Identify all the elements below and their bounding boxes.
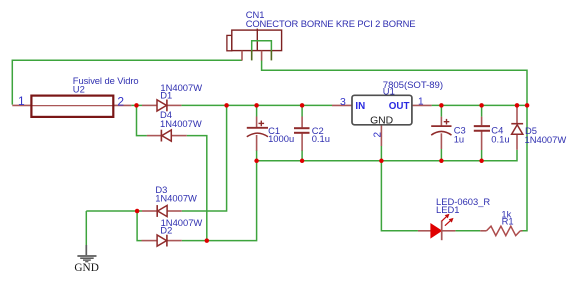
pin number 1 (U1 OUT): [418, 97, 424, 108]
diode D4: [147, 130, 187, 142]
wire: D3 anode up to IN rail: [182, 105, 227, 211]
node: fuse/D1/D4 junction: [134, 103, 139, 108]
svg-text:GND: GND: [370, 116, 393, 127]
label R1: [501, 208, 513, 226]
svg-text:1: 1: [418, 97, 424, 108]
label C3: [454, 124, 466, 144]
svg-text:CONECTOR BORNE KRE PCI 2 BORNE: CONECTOR BORNE KRE PCI 2 BORNE: [246, 18, 416, 29]
node: D2 cathode / D4 junction: [205, 238, 210, 243]
label D5: [525, 125, 567, 145]
node: C4 bottom: [479, 159, 484, 164]
svg-text:R1: R1: [502, 216, 514, 227]
pin number 2 (fuse): [117, 94, 124, 108]
svg-text:2: 2: [372, 132, 383, 138]
fuse U2: [12, 96, 131, 117]
label D2: [160, 217, 202, 235]
svg-text:IN: IN: [355, 101, 365, 112]
label C1: [268, 125, 294, 144]
node: C1 top: [254, 103, 259, 108]
svg-text:U2: U2: [73, 84, 85, 95]
node: C2 top: [300, 103, 305, 108]
wire: OUT rail from U1 OUT to right vertical: [432, 104, 527, 106]
svg-text:3: 3: [340, 96, 346, 108]
svg-text:1: 1: [18, 94, 25, 108]
svg-text:GND: GND: [74, 262, 98, 274]
label U1: [383, 80, 443, 97]
diode D1: [142, 100, 181, 112]
svg-text:U1: U1: [383, 86, 395, 97]
pin number 3 (U1 IN): [340, 96, 346, 108]
svg-text:1N4007W: 1N4007W: [525, 134, 567, 145]
svg-text:2: 2: [117, 94, 124, 108]
wire: C1 stubs: [256, 105, 258, 160]
node: C4 top: [479, 103, 484, 108]
svg-text:1N4007W: 1N4007W: [160, 118, 202, 129]
svg-text:1u: 1u: [454, 133, 464, 144]
wire: C3 stubs: [440, 105, 442, 160]
node: right vertical on OUT rail: [525, 103, 530, 108]
capacitor C1: [247, 117, 268, 151]
wire: D3 cathode row from GND corner: [86, 210, 142, 212]
wire: CN1 pin2 to +5V rail and down right side to R1: [262, 60, 527, 230]
svg-text:LED1: LED1: [436, 204, 459, 215]
node: C3 bottom: [439, 159, 444, 164]
diode D3: [142, 205, 182, 217]
svg-text:0.1u: 0.1u: [312, 133, 330, 144]
node: D3/D2 anode junction: [135, 209, 140, 214]
resistor R1: [480, 226, 522, 235]
wire: top-left input wire from CN1 pin1 to fuse: [12, 60, 242, 104]
node: D5 top: [515, 103, 520, 108]
label D1: [160, 82, 202, 100]
pin number 1 (fuse): [18, 94, 25, 108]
label LED1: [436, 196, 490, 215]
wire: D4 anode right and down to D2 row: [187, 136, 207, 241]
svg-text:1000u: 1000u: [268, 133, 294, 144]
pin number 2 (U1 GND): [372, 132, 383, 138]
connector CN1: [227, 29, 282, 61]
wire: IN rail from fuse junction to U1 IN: [131, 104, 332, 106]
wire: fuse junction down to D4: [137, 105, 147, 135]
wire: D5 bottom stub: [516, 150, 518, 162]
regulator U1: [332, 95, 432, 146]
wire: GND rail: [257, 160, 517, 162]
wire: C2 stubs: [301, 105, 303, 160]
wire: LED cathode to R1: [455, 230, 480, 232]
wire: D2 cathode right and up to GND rail: [182, 161, 257, 241]
label U2 Fusivel de Vidro: [73, 75, 139, 95]
wire: U1 GND pin to GND rail and LED branch: [381, 146, 418, 231]
LED LED1: [418, 214, 456, 241]
capacitor C4: [474, 117, 490, 150]
capacitor C3: [431, 117, 451, 149]
wire: D3 junction down to D2 anode: [137, 211, 141, 241]
node: C3 top: [439, 103, 444, 108]
label D4: [160, 109, 202, 129]
svg-text:D1: D1: [160, 89, 172, 100]
diode D2: [142, 235, 182, 247]
capacitor C2: [294, 117, 310, 151]
label C4: [491, 125, 509, 145]
ground: [77, 245, 96, 262]
wire: GND symbol stem: [85, 211, 87, 245]
label GND: [74, 262, 98, 274]
node: U1 GND / LED branch: [379, 159, 384, 164]
label D3: [155, 184, 197, 203]
svg-text:0.1u: 0.1u: [491, 134, 509, 145]
label CN1: [246, 9, 416, 29]
wire: C4 stubs: [481, 105, 483, 160]
svg-text:1N4007W: 1N4007W: [155, 193, 197, 204]
svg-text:OUT: OUT: [389, 101, 410, 112]
label C2: [312, 125, 330, 144]
svg-text:D2: D2: [160, 225, 172, 236]
diode D5: [511, 105, 523, 149]
node: C1 bottom: [254, 159, 259, 164]
node: C2 bottom: [300, 159, 305, 164]
node: D3 branch on IN rail: [224, 103, 229, 108]
